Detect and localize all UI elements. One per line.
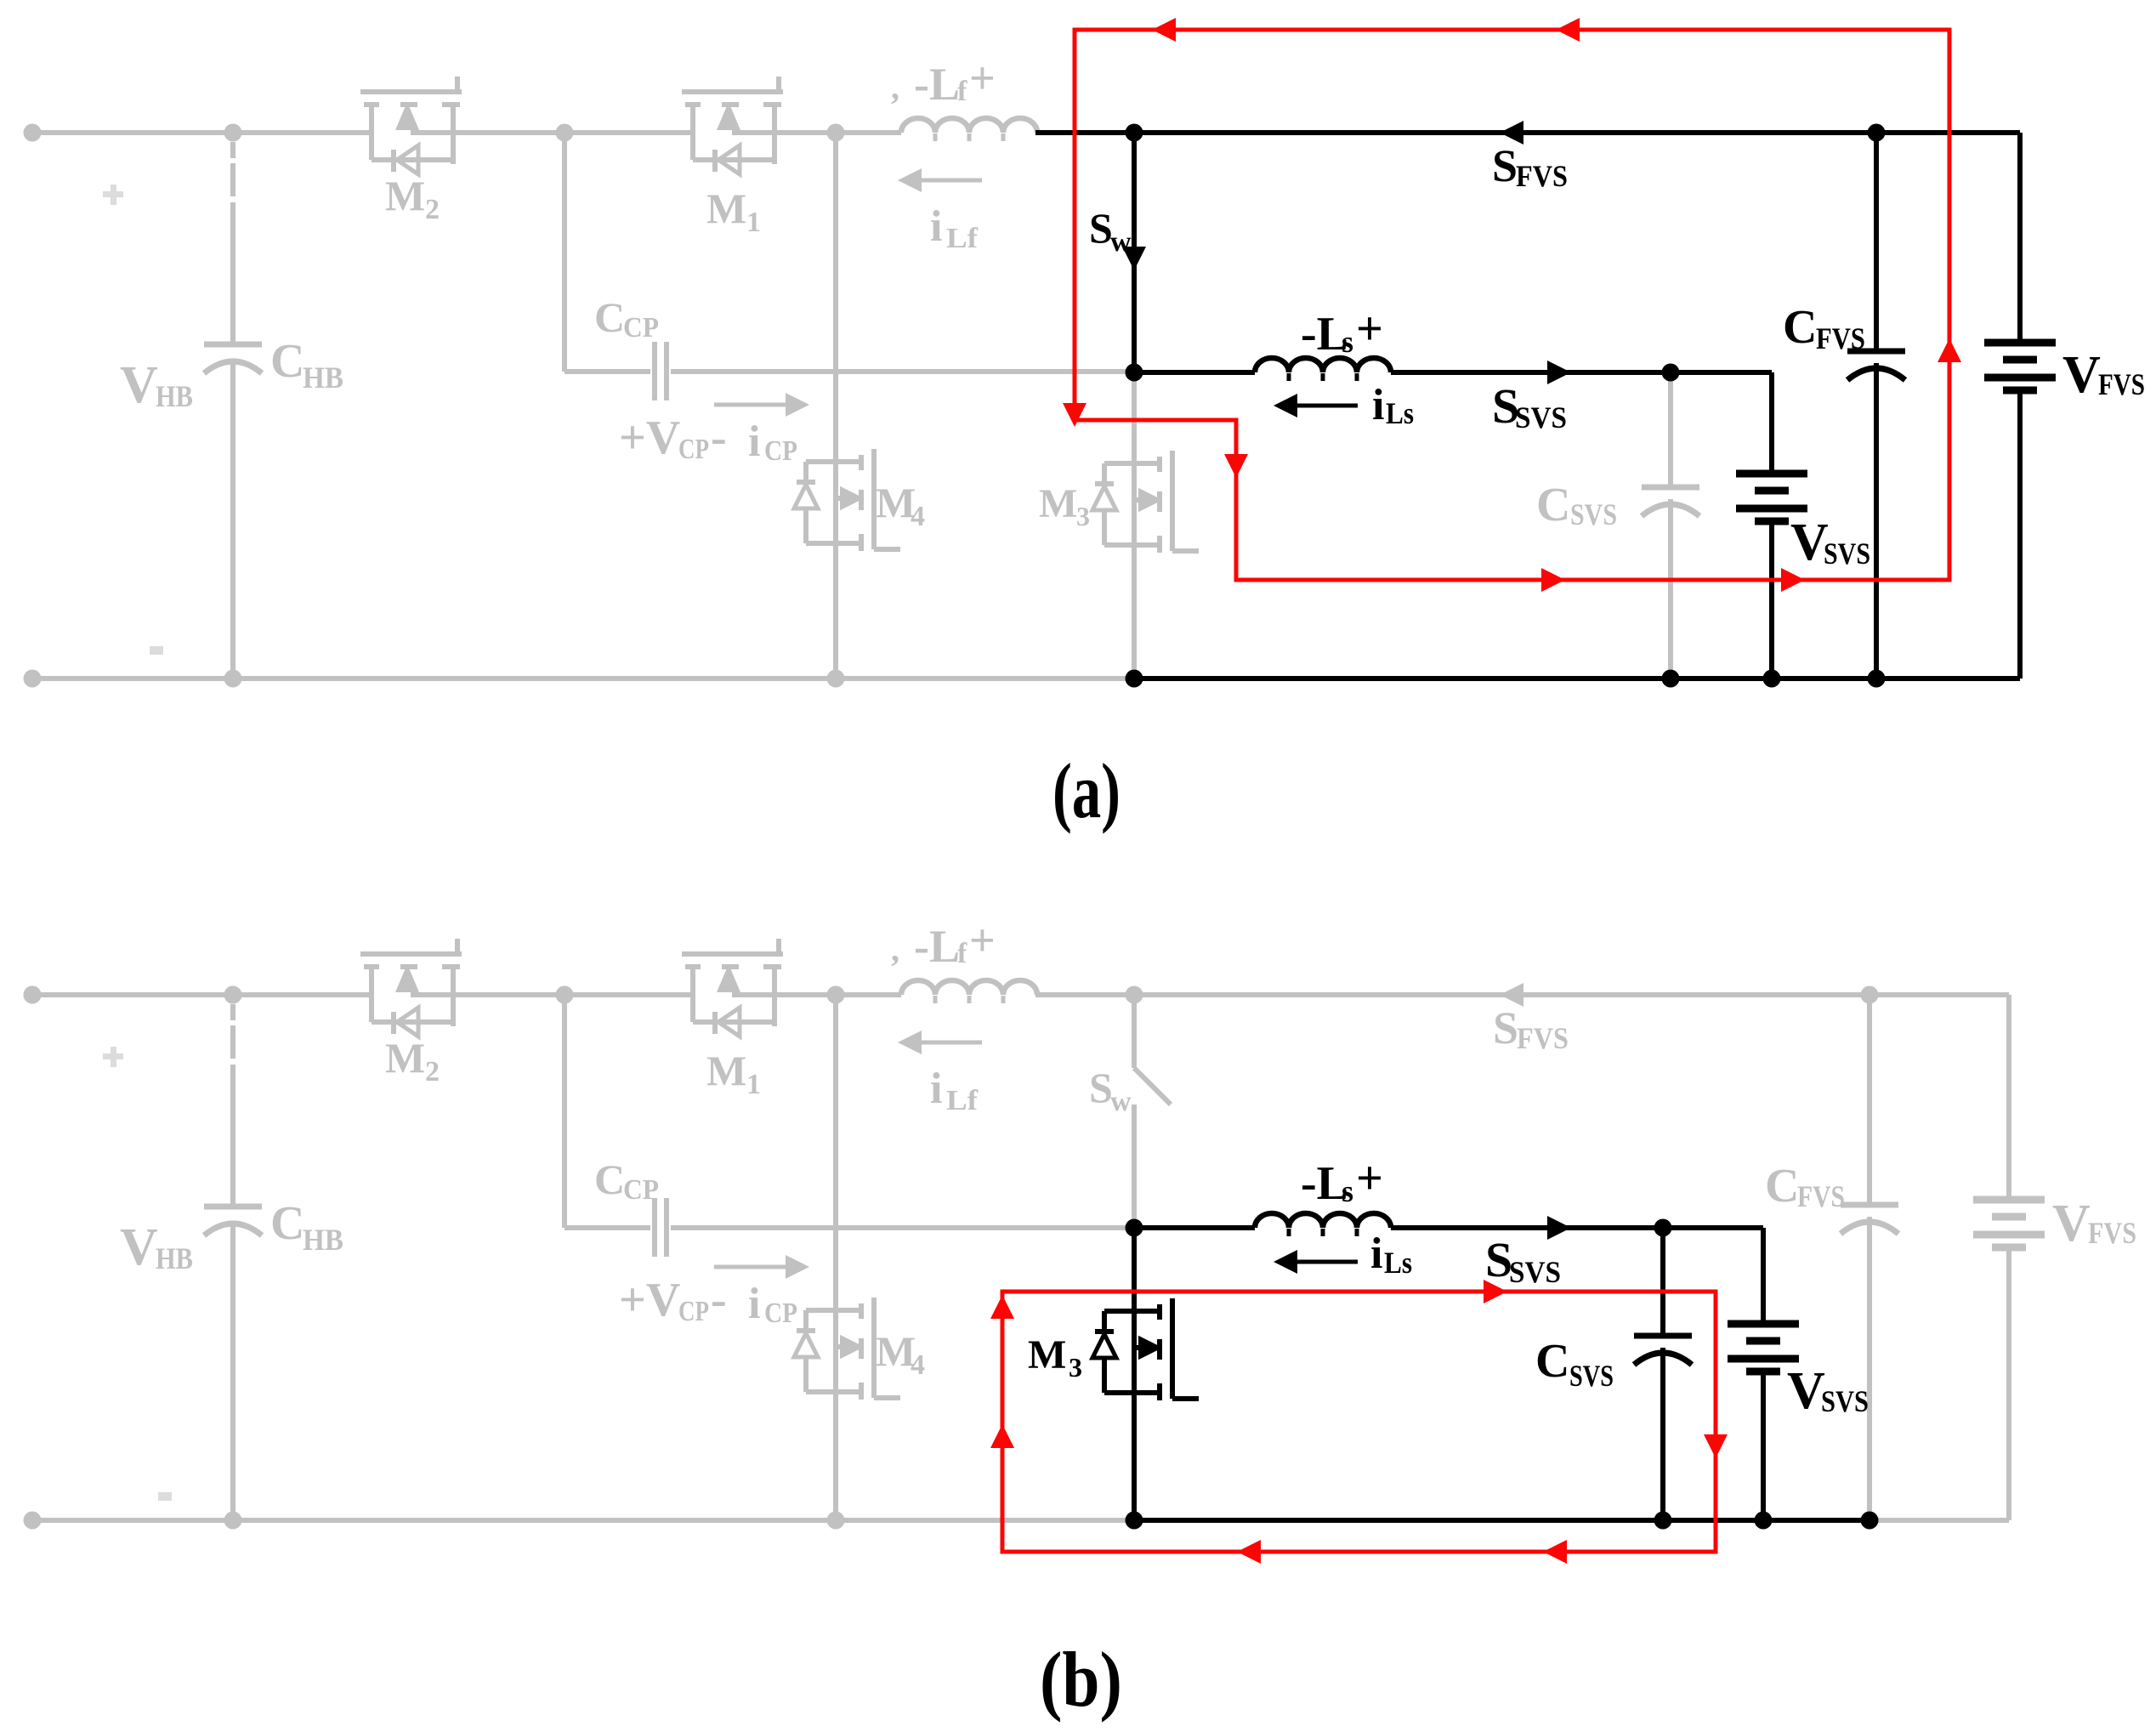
svg-text:CP: CP bbox=[764, 1298, 797, 1329]
svg-text:Ls: Ls bbox=[1386, 396, 1414, 430]
svg-text:S: S bbox=[1089, 1064, 1113, 1111]
svg-text:-: - bbox=[711, 412, 727, 464]
svg-text:Ls: Ls bbox=[1384, 1246, 1412, 1280]
svg-text:-: - bbox=[711, 1274, 727, 1326]
svg-text:C: C bbox=[1783, 301, 1817, 354]
svg-text:+V: +V bbox=[619, 1274, 680, 1326]
svg-text:i: i bbox=[748, 417, 760, 466]
svg-text:C: C bbox=[594, 1156, 625, 1203]
svg-text:SVS: SVS bbox=[1570, 497, 1617, 531]
svg-text:+: + bbox=[1356, 1152, 1383, 1205]
svg-text:SVS: SVS bbox=[1509, 1255, 1561, 1289]
svg-text:CP: CP bbox=[764, 435, 797, 467]
svg-text:CP: CP bbox=[623, 1174, 659, 1206]
svg-text:CP: CP bbox=[678, 434, 709, 465]
svg-text:i: i bbox=[1372, 381, 1384, 429]
svg-text:(a): (a) bbox=[1052, 747, 1121, 834]
svg-text:M: M bbox=[1028, 1332, 1066, 1377]
svg-text:SVS: SVS bbox=[1569, 1359, 1614, 1393]
svg-text:C: C bbox=[1536, 479, 1570, 531]
svg-text:C: C bbox=[1765, 1160, 1799, 1212]
svg-text:V: V bbox=[1787, 1362, 1825, 1420]
svg-text:i: i bbox=[1370, 1229, 1382, 1278]
svg-text:CP: CP bbox=[623, 312, 659, 344]
svg-text:FVS: FVS bbox=[1797, 1179, 1845, 1213]
svg-text:(b): (b) bbox=[1040, 1636, 1122, 1723]
svg-text:C: C bbox=[1535, 1335, 1569, 1388]
svg-text:4: 4 bbox=[911, 501, 925, 532]
svg-text:CP: CP bbox=[678, 1296, 709, 1327]
svg-text:3: 3 bbox=[1076, 501, 1090, 531]
svg-text:+: + bbox=[1356, 303, 1383, 355]
svg-text:FVS: FVS bbox=[2088, 1216, 2136, 1250]
svg-text:+V: +V bbox=[619, 412, 680, 464]
svg-text:s: s bbox=[1342, 325, 1353, 359]
svg-text:S: S bbox=[1089, 204, 1113, 252]
svg-text:3: 3 bbox=[1069, 1352, 1082, 1383]
svg-text:V: V bbox=[2052, 1195, 2091, 1252]
svg-text:4: 4 bbox=[911, 1349, 925, 1381]
svg-text:V: V bbox=[2062, 346, 2101, 404]
svg-text:SVS: SVS bbox=[1515, 400, 1567, 434]
svg-text:w: w bbox=[1110, 1086, 1132, 1117]
svg-text:S: S bbox=[1493, 1002, 1518, 1053]
svg-text:FVS: FVS bbox=[1516, 159, 1568, 193]
svg-text:FVS: FVS bbox=[1517, 1021, 1569, 1055]
svg-text:S: S bbox=[1492, 140, 1518, 191]
svg-text:s: s bbox=[1342, 1174, 1353, 1208]
svg-text:i: i bbox=[748, 1280, 760, 1328]
svg-text:FVS: FVS bbox=[2098, 367, 2145, 401]
svg-text:C: C bbox=[594, 293, 625, 341]
svg-text:SVS: SVS bbox=[1824, 537, 1870, 571]
svg-text:w: w bbox=[1110, 226, 1132, 258]
svg-text:M: M bbox=[1039, 481, 1077, 526]
svg-text:FVS: FVS bbox=[1816, 321, 1865, 355]
svg-text:SVS: SVS bbox=[1821, 1384, 1869, 1418]
